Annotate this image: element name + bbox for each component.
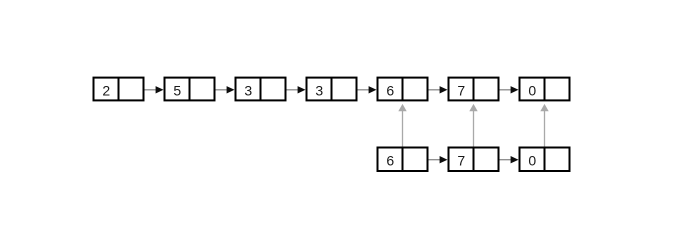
wire gray arrow B1 up to T5 (398, 104, 406, 147)
node T7 (list node, value 0) (520, 78, 570, 101)
node T1 (list node, value 2) (94, 78, 144, 101)
svg-text:6: 6 (386, 153, 394, 169)
wire gray arrow B2 up to T6 (469, 104, 477, 147)
wire arrow T3 to T4 (287, 86, 306, 93)
svg-text:0: 0 (528, 82, 536, 98)
svg-text:7: 7 (457, 153, 465, 169)
svg-text:7: 7 (457, 82, 465, 98)
wire arrow B2 to B3 (500, 156, 519, 163)
svg-text:3: 3 (315, 82, 323, 98)
svg-text:6: 6 (386, 82, 394, 98)
node B2 (list node, value 7) (449, 148, 499, 172)
svg-text:2: 2 (102, 82, 110, 98)
node T5 (list node, value 6) (378, 78, 428, 101)
wire arrow T6 to T7 (500, 86, 519, 93)
node B3 (list node, value 0) (520, 148, 570, 172)
node T2 (list node, value 5) (165, 78, 215, 101)
svg-text:5: 5 (173, 82, 181, 98)
node T6 (list node, value 7) (449, 78, 499, 101)
wire arrow T5 to T6 (429, 86, 448, 93)
wire arrow T4 to T5 (358, 86, 377, 93)
node T3 (list node, value 3) (236, 78, 286, 101)
node T4 (list node, value 3) (307, 78, 357, 101)
wire arrow T1 to T2 (145, 86, 164, 93)
svg-text:0: 0 (528, 153, 536, 169)
wire arrow T2 to T3 (216, 86, 235, 93)
node B1 (list node, value 6) (378, 148, 428, 172)
svg-text:3: 3 (244, 82, 252, 98)
wire gray arrow B3 up to T7 (540, 104, 548, 147)
wire arrow B1 to B2 (429, 156, 448, 163)
